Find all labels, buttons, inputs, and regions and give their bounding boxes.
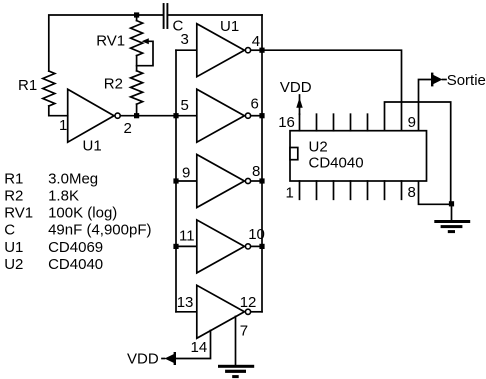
svg-text:RV1: RV1 <box>96 32 125 49</box>
IC U2 notch <box>290 148 298 160</box>
wire R2 to node 2 <box>136 104 138 116</box>
bubble pin 4 <box>245 48 250 53</box>
node pin 8 <box>259 178 264 183</box>
node pin 6 <box>259 113 264 118</box>
inverter U1 gate F (pins 13-12) <box>197 285 245 338</box>
pin 6 stub <box>384 181 386 199</box>
resistor R1 <box>43 71 55 106</box>
wire capacitor to right bus <box>168 14 262 16</box>
wire pin 9 of U2 to Sortie <box>419 80 434 131</box>
svg-text:U2: U2 <box>309 138 328 155</box>
svg-text:Sortie: Sortie <box>447 72 486 89</box>
inverter U1 gate B (pins 3-4) <box>197 24 245 77</box>
arrow VDD left <box>162 353 175 364</box>
svg-text:9: 9 <box>408 114 416 131</box>
pin 4 stub <box>350 181 352 199</box>
arrow Sortie <box>432 74 446 85</box>
svg-text:U1: U1 <box>220 18 239 35</box>
svg-text:CD4040: CD4040 <box>309 155 364 172</box>
inverter U1 gate C (pins 5-6) <box>197 89 245 142</box>
wire U1 pin 7 to ground <box>235 316 237 364</box>
inverter U1 gate D (pins 9-8) <box>197 155 245 208</box>
wire pin 8 <box>251 180 262 182</box>
svg-text:6: 6 <box>251 95 259 112</box>
node pin 9 <box>173 178 178 183</box>
node pin 10 <box>259 244 264 249</box>
pin 16 stub <box>299 114 301 131</box>
pin 2 stub <box>316 181 318 199</box>
wire R1 to inverter input pin 1 <box>49 106 68 116</box>
pin 1 stub <box>299 181 301 199</box>
bubble pin 6 <box>245 113 250 118</box>
VDD arrow top <box>296 95 302 114</box>
svg-text:1.8K: 1.8K <box>48 188 79 205</box>
wire pin 9 input <box>176 180 197 182</box>
svg-text:CD4069: CD4069 <box>48 239 103 256</box>
bubble pin 10 <box>245 244 250 249</box>
bubble output pin 2 <box>115 113 120 118</box>
wire pin 4 <box>251 49 262 51</box>
wire right bus <box>261 15 263 312</box>
wire junction to ground symbol <box>451 204 453 220</box>
svg-text:16: 16 <box>278 114 295 131</box>
wire U2 reset pin 11 to ground net <box>385 102 451 204</box>
node RV1 top <box>134 12 139 17</box>
svg-text:2: 2 <box>124 120 132 137</box>
ground right <box>434 220 470 233</box>
svg-text:U1: U1 <box>4 239 23 256</box>
pin 5 stub <box>367 181 369 199</box>
capacitor C <box>164 4 168 28</box>
IC U2 body <box>290 131 427 181</box>
potentiometer RV1 <box>131 21 143 56</box>
svg-text:12: 12 <box>240 294 257 311</box>
svg-text:3: 3 <box>181 31 189 48</box>
svg-text:VDD: VDD <box>127 350 159 367</box>
svg-text:3.0Meg: 3.0Meg <box>48 171 98 188</box>
svg-text:5: 5 <box>181 97 189 114</box>
svg-text:4: 4 <box>252 33 260 50</box>
wire pin 4 to U2 clock pin 10 <box>262 50 402 131</box>
inverter U1 gate A (pins 1-2) <box>68 89 114 142</box>
resistor R2 <box>131 71 143 104</box>
pin 13 stub <box>350 114 352 131</box>
node pin 5 <box>173 113 178 118</box>
svg-text:R2: R2 <box>4 188 23 205</box>
svg-text:14: 14 <box>191 339 208 356</box>
svg-text:11: 11 <box>179 228 195 245</box>
wire top feedback from R1 to capacitor <box>49 15 163 71</box>
wire pin 6 <box>251 115 262 117</box>
wire pin 3 input <box>176 49 197 51</box>
ground bottom <box>218 365 254 378</box>
svg-text:RV1: RV1 <box>4 205 33 222</box>
svg-text:49nF (4,900pF): 49nF (4,900pF) <box>48 222 151 239</box>
wire pin 11 input <box>176 245 197 247</box>
node 2 junction <box>134 113 139 118</box>
svg-text:100K (log): 100K (log) <box>48 205 117 222</box>
node pin 11 <box>173 244 178 249</box>
pin 3 stub <box>333 181 335 199</box>
svg-text:8: 8 <box>408 184 416 201</box>
bubble pin 8 <box>245 178 250 183</box>
wire pin 13 input <box>176 311 197 313</box>
svg-text:10: 10 <box>248 226 265 243</box>
bubble pin 12 <box>245 309 250 314</box>
wire top to RV1 <box>136 15 138 21</box>
svg-text:R1: R1 <box>18 77 37 94</box>
pin 15 stub <box>316 114 318 131</box>
svg-text:8: 8 <box>252 163 260 180</box>
wire pin 10 <box>251 245 262 247</box>
svg-text:7: 7 <box>240 322 248 339</box>
wire pin 2 to bus <box>121 115 176 117</box>
pin 14 stub <box>333 114 335 131</box>
svg-text:U1: U1 <box>83 137 102 154</box>
svg-text:CD4040: CD4040 <box>48 256 103 273</box>
svg-text:9: 9 <box>182 164 190 181</box>
svg-text:R2: R2 <box>104 75 123 92</box>
wire U2 pin 8 to ground <box>419 181 452 204</box>
node pin 4 <box>259 48 264 53</box>
inverter U1 gate E (pins 11-10) <box>197 220 245 273</box>
wire pin 5 input <box>176 115 197 117</box>
node ground junction <box>449 201 454 206</box>
pin 12 stub <box>367 114 369 131</box>
wire pin 12 <box>251 311 262 313</box>
RV1 wiper arrow <box>137 38 153 65</box>
svg-text:C: C <box>4 222 15 239</box>
svg-text:U2: U2 <box>4 256 23 273</box>
svg-text:VDD: VDD <box>280 79 312 96</box>
wire left bus <box>175 50 177 312</box>
wire U1 pin 14 to VDD <box>174 331 211 359</box>
svg-text:1: 1 <box>286 184 294 201</box>
pin 7 stub <box>401 181 403 199</box>
wire RV1 to R2 <box>136 56 138 71</box>
svg-text:R1: R1 <box>4 171 23 188</box>
svg-text:13: 13 <box>177 294 194 311</box>
svg-text:1: 1 <box>59 117 67 134</box>
